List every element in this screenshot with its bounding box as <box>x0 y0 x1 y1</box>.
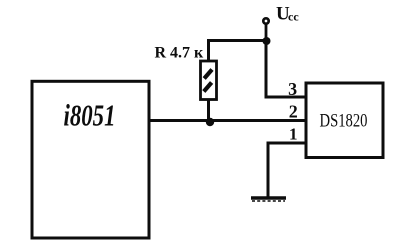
wire resistor top lead <box>207 41 210 62</box>
wire Ucc terminal stem <box>265 24 268 41</box>
wire resistor to Ucc node <box>207 39 266 42</box>
svg-text:DS1820: DS1820 <box>320 112 368 132</box>
ground <box>251 198 286 201</box>
svg-text:1: 1 <box>289 125 298 144</box>
Ucc terminal circle <box>263 18 268 23</box>
svg-text:2: 2 <box>289 101 298 121</box>
wire i8051 to DS1820 pin 2 (data line) <box>148 119 306 122</box>
IC U1 i8051 box <box>32 81 149 238</box>
resistor R 4.7k body <box>201 61 217 100</box>
svg-text:cc: cc <box>288 10 299 24</box>
wire Ucc node down to pin 3 <box>266 41 306 98</box>
junction node on data line <box>206 118 214 126</box>
junction node at Ucc branch <box>263 37 271 45</box>
label Ucc <box>276 4 299 25</box>
svg-text:i8051: i8051 <box>64 98 116 133</box>
svg-text:R 4.7 к: R 4.7 к <box>155 45 205 62</box>
wire DS1820 pin 1 to ground <box>268 143 306 197</box>
wire resistor bottom lead to data line <box>207 100 210 121</box>
svg-text:3: 3 <box>288 79 297 99</box>
IC U2 DS1820 box <box>306 83 383 158</box>
